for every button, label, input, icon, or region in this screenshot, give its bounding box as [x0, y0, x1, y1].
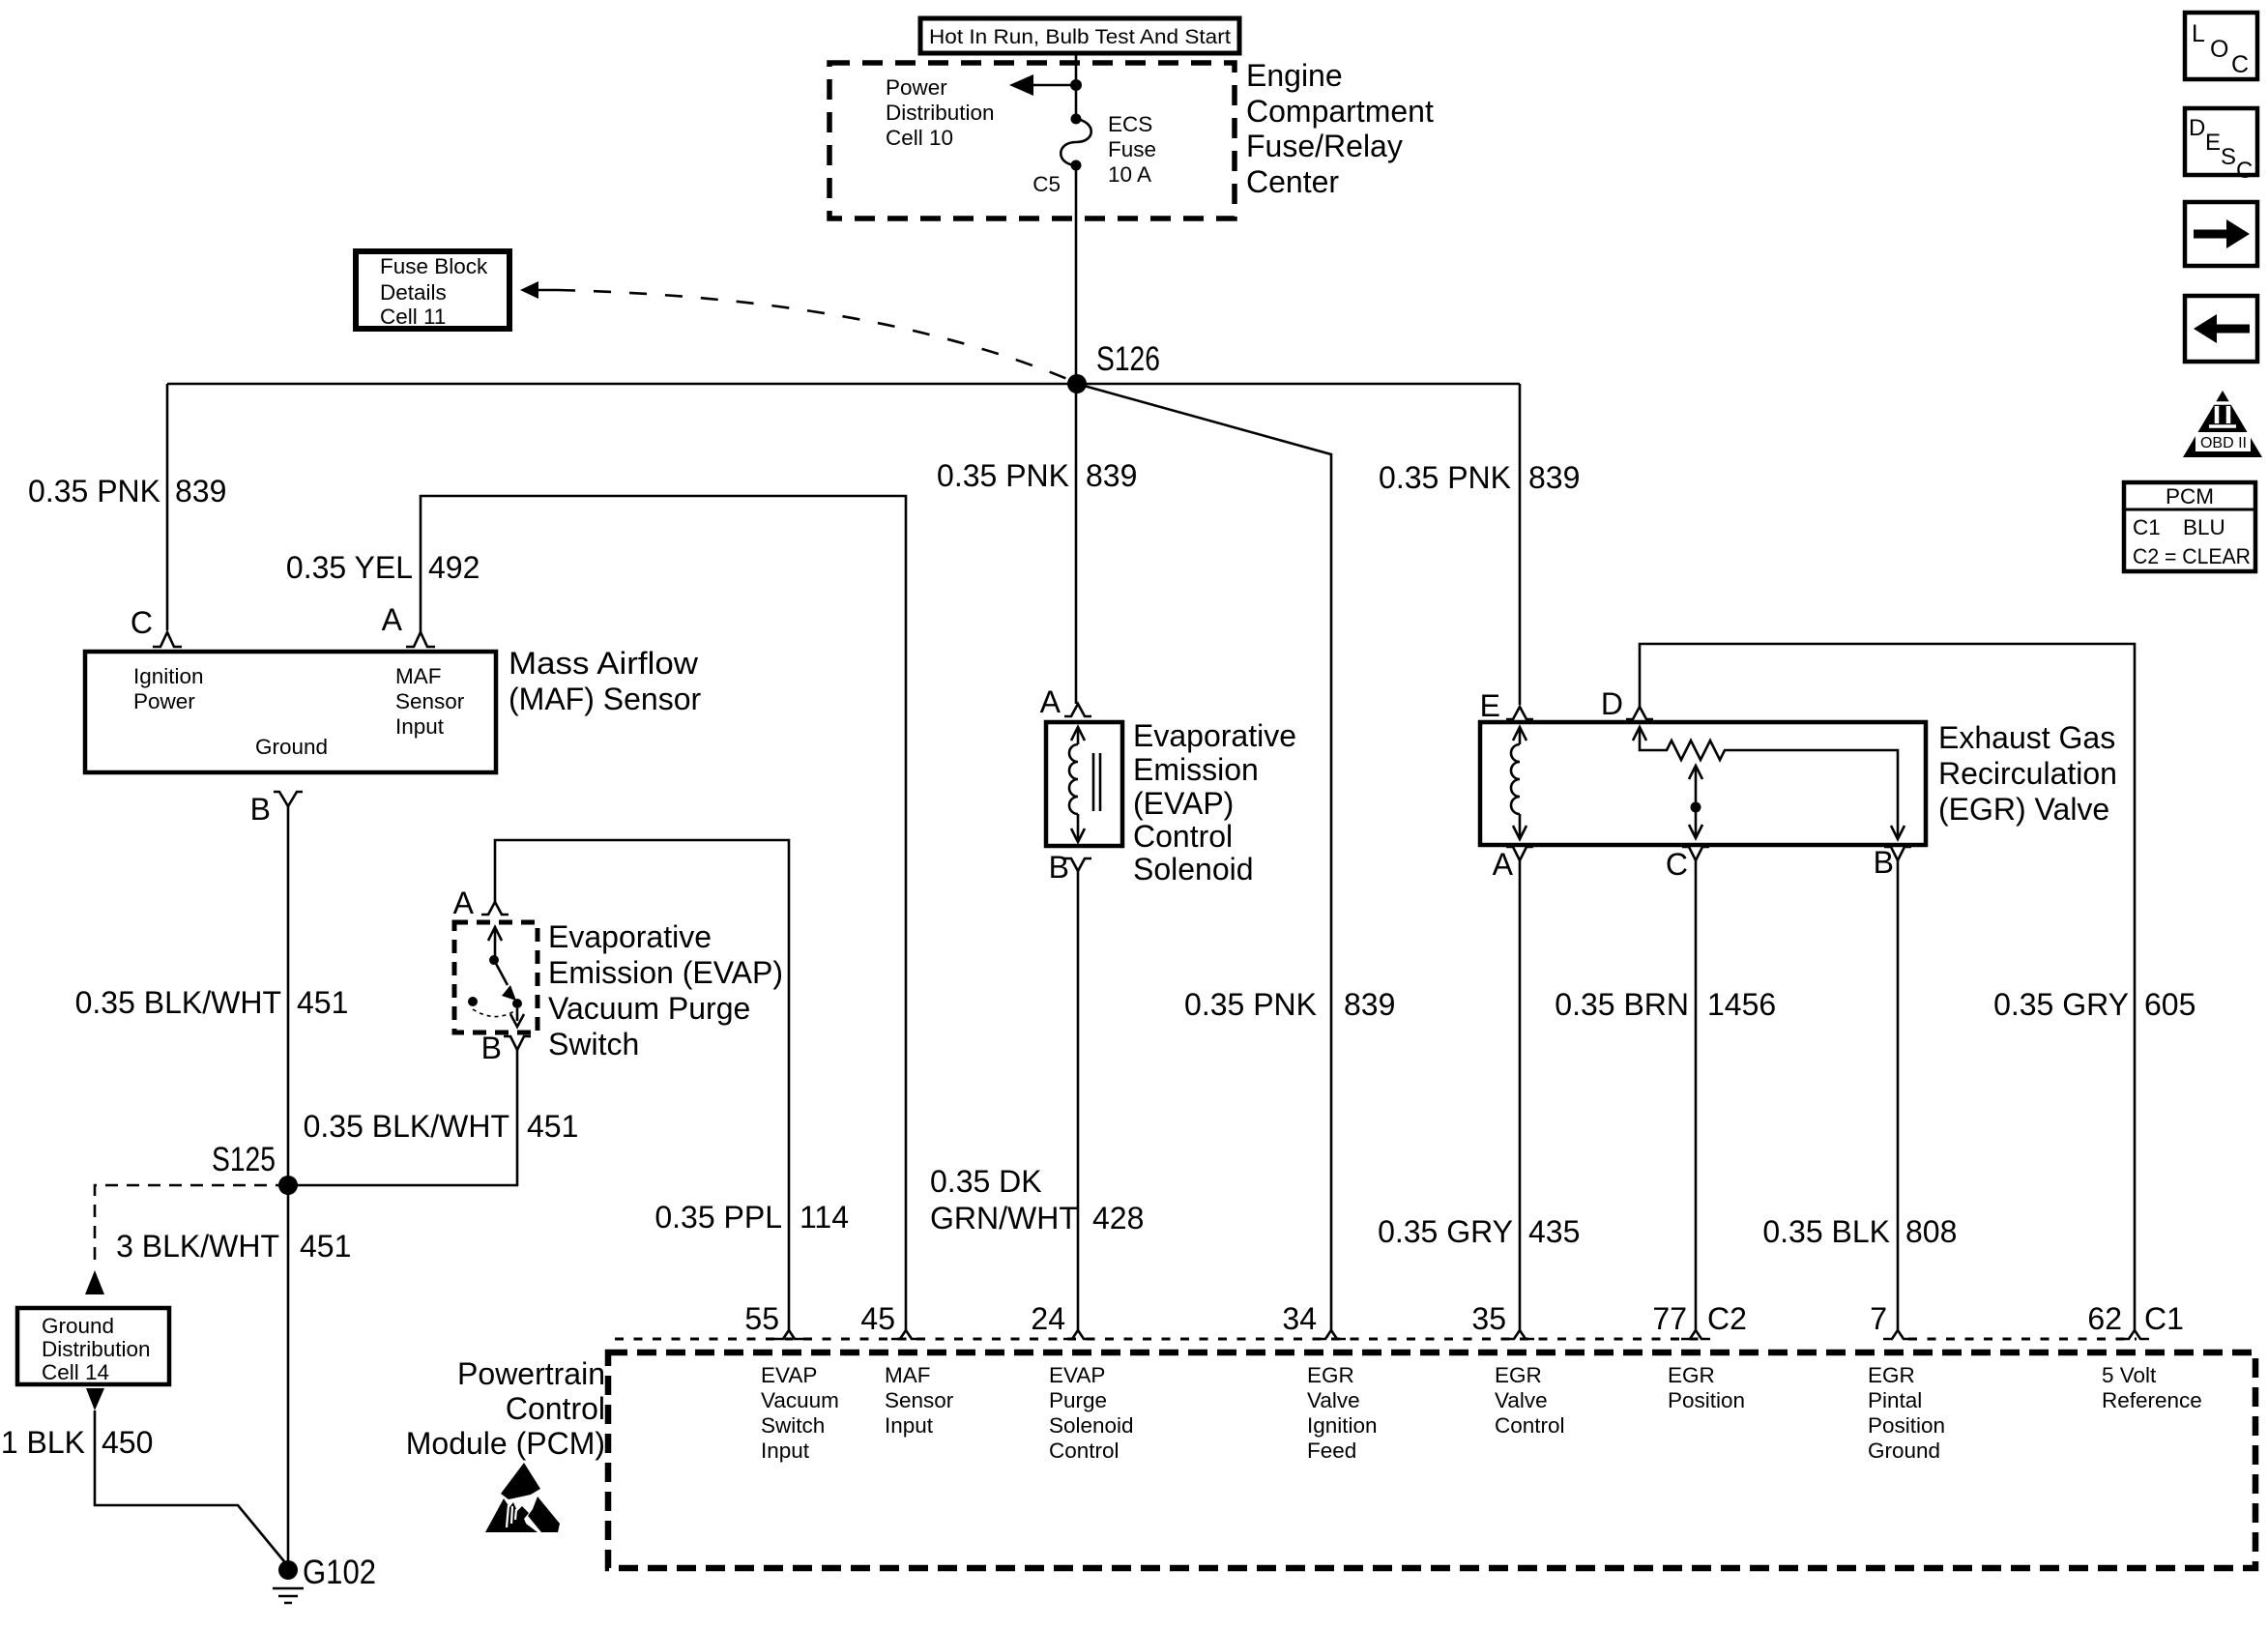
terminal D of EGR valve — [1626, 707, 1653, 719]
svg-text:0.35 PNK: 0.35 PNK — [1379, 460, 1511, 495]
svg-text:24: 24 — [1031, 1301, 1065, 1336]
svg-text:C: C — [131, 605, 153, 640]
terminal B of EGR valve — [1884, 847, 1911, 860]
svg-text:Switch: Switch — [548, 1027, 639, 1061]
power source banner: Hot In Run, Bulb Test And Start — [920, 18, 1239, 53]
wire: feed from banner into fuse — [1075, 55, 1078, 118]
switch contact arrow down — [516, 1008, 519, 1021]
svg-text:C1: C1 — [2144, 1301, 2184, 1336]
terminal A of EVAP solenoid — [1064, 704, 1091, 716]
node: junction dot to power distribution — [1070, 79, 1082, 91]
pin 77 terminal — [1681, 1330, 1710, 1339]
terminal A of MAF sensor — [406, 632, 435, 647]
svg-text:0.35 BRN: 0.35 BRN — [1555, 987, 1689, 1022]
svg-text:Emission: Emission — [1133, 752, 1259, 787]
svg-text:A: A — [1493, 847, 1514, 882]
svg-text:Feed: Feed — [1307, 1439, 1356, 1463]
svg-text:0.35 PNK: 0.35 PNK — [937, 458, 1069, 493]
svg-text:Powertrain: Powertrain — [457, 1356, 605, 1391]
label Mass Airflow (MAF) Sensor — [509, 646, 701, 716]
wire BLK 808: EGR B to PCM pin 7 — [1897, 860, 1900, 1330]
svg-text:0.35 YEL: 0.35 YEL — [286, 550, 413, 585]
EVAP vacuum purge switch dashed box — [454, 922, 538, 1032]
svg-text:(EVAP): (EVAP) — [1133, 786, 1234, 821]
wire 1 BLK 450 to G102 — [95, 1410, 288, 1566]
svg-text:Purge: Purge — [1049, 1388, 1107, 1412]
arrow out of Ground Distribution box — [86, 1388, 104, 1410]
pin 77 label EGR Position — [1668, 1363, 1745, 1412]
pin 55 label EVAP Vacuum Switch Input — [761, 1363, 839, 1463]
PCM connector color legend box — [2124, 482, 2255, 571]
EGR position wiper — [1689, 766, 1702, 838]
node: switch contact dot right — [512, 999, 522, 1008]
svg-text:B: B — [250, 792, 271, 827]
terminal B of EVAP switch — [504, 1036, 531, 1050]
svg-text:G102: G102 — [303, 1554, 376, 1591]
terminal B of MAF sensor — [274, 792, 303, 806]
svg-text:Power: Power — [133, 689, 195, 713]
EVAP control solenoid box — [1046, 722, 1122, 846]
pin 34 label EGR Valve Ignition Feed — [1307, 1363, 1378, 1463]
fuse ECS 10 A — [1061, 114, 1091, 171]
svg-text:3 BLK/WHT: 3 BLK/WHT — [116, 1229, 279, 1264]
pin 35 label EGR Valve Control — [1495, 1363, 1565, 1438]
svg-text:Center: Center — [1246, 164, 1339, 199]
ground G102 — [273, 1554, 376, 1603]
pin 35 terminal — [1505, 1330, 1534, 1339]
wire to power distribution arrow — [1031, 84, 1076, 87]
wire: left PNK 839 drop to MAF C — [166, 384, 169, 630]
dashed pointer from S126 to Fuse Block Details — [520, 281, 538, 299]
svg-text:451: 451 — [300, 1229, 351, 1264]
svg-text:Fuse/Relay: Fuse/Relay — [1246, 129, 1403, 163]
svg-text:Position: Position — [1868, 1413, 1945, 1438]
svg-text:Evaporative: Evaporative — [548, 919, 712, 954]
label Engine Compartment Fuse/Relay Center — [1246, 58, 1434, 199]
svg-text:808: 808 — [1905, 1214, 1957, 1249]
svg-text:ECS: ECS — [1108, 112, 1152, 136]
pin 62 terminal — [2120, 1330, 2149, 1339]
PCM connector C1 dashed line — [1908, 1338, 2137, 1341]
wire DK GRN/WHT 428: solenoid B to PCM pin 24 — [1077, 871, 1080, 1330]
svg-text:A: A — [1040, 684, 1061, 719]
splice S125 — [278, 1176, 298, 1195]
pin numbers — [744, 1301, 2122, 1336]
Fuse Block Details callout box — [356, 251, 509, 329]
svg-text:0.35 GRY: 0.35 GRY — [1993, 987, 2129, 1022]
LOC icon box — [2185, 13, 2257, 79]
svg-text:Control: Control — [506, 1391, 605, 1426]
svg-text:Engine: Engine — [1246, 58, 1343, 93]
svg-text:S: S — [2221, 144, 2236, 170]
wire: S126 horizontal rail — [167, 383, 1520, 386]
svg-text:Evaporative: Evaporative — [1133, 718, 1296, 753]
MAF internal labels — [133, 664, 465, 759]
svg-text:Valve: Valve — [1495, 1388, 1548, 1412]
svg-text:5 Volt: 5 Volt — [2102, 1363, 2157, 1387]
terminal E of EGR valve — [1506, 707, 1533, 719]
svg-text:C: C — [2231, 51, 2249, 78]
svg-text:Ground: Ground — [42, 1314, 114, 1338]
svg-text:Pintal: Pintal — [1868, 1388, 1922, 1412]
svg-text:B: B — [481, 1031, 502, 1065]
svg-text:0.35 PNK: 0.35 PNK — [1184, 987, 1317, 1022]
pin 7 terminal — [1883, 1330, 1912, 1339]
svg-text:Compartment: Compartment — [1246, 94, 1434, 129]
svg-text:Control: Control — [1133, 819, 1233, 854]
svg-text:EVAP: EVAP — [1049, 1363, 1105, 1387]
svg-text:1456: 1456 — [1707, 987, 1776, 1022]
svg-text:114: 114 — [800, 1200, 849, 1235]
svg-text:Fuse Block: Fuse Block — [380, 254, 488, 278]
svg-text:10 A: 10 A — [1108, 162, 1151, 187]
svg-text:34: 34 — [1282, 1301, 1317, 1336]
terminal C of MAF sensor — [153, 632, 182, 647]
dashed travel arc of switch — [473, 1009, 514, 1017]
svg-text:Distribution: Distribution — [886, 101, 995, 125]
pin 7 label EGR Pintal Position Ground — [1868, 1363, 1945, 1463]
svg-text:435: 435 — [1528, 1214, 1580, 1249]
Powertrain Control Module (PCM) dashed box — [608, 1352, 2255, 1568]
svg-text:L: L — [2192, 20, 2205, 47]
svg-text:S125: S125 — [212, 1141, 276, 1178]
wire: right PNK 839 drop to EGR E — [1519, 384, 1522, 705]
svg-text:B: B — [1049, 850, 1069, 885]
svg-text:D: D — [1601, 686, 1623, 721]
svg-text:0.35 PNK: 0.35 PNK — [28, 474, 160, 509]
switch lever with arrowhead — [494, 960, 508, 985]
svg-text:55: 55 — [744, 1301, 779, 1336]
svg-text:Exhaust Gas: Exhaust Gas — [1938, 720, 2115, 755]
PCM connector C2 dashed line — [615, 1338, 1708, 1341]
pin 34 terminal — [1317, 1330, 1346, 1339]
svg-text:C2: C2 — [1707, 1301, 1747, 1336]
svg-text:Recirculation: Recirculation — [1938, 756, 2117, 791]
solenoid coil with arrows — [1069, 727, 1085, 842]
svg-text:77: 77 — [1652, 1301, 1687, 1336]
svg-text:EVAP: EVAP — [761, 1363, 817, 1387]
svg-text:0.35 BLK: 0.35 BLK — [1762, 1214, 1890, 1249]
svg-text:Control: Control — [1049, 1439, 1119, 1463]
terminal C of EGR valve — [1682, 847, 1709, 860]
label Exhaust Gas Recirculation (EGR) Valve — [1938, 720, 2117, 827]
svg-text:0.35 DK: 0.35 DK — [930, 1164, 1042, 1199]
pin 62 label 5 Volt Reference — [2102, 1363, 2202, 1412]
left arrow icon box — [2185, 296, 2257, 362]
svg-text:Module (PCM): Module (PCM) — [406, 1426, 605, 1461]
svg-text:451: 451 — [297, 985, 348, 1020]
svg-text:C1: C1 — [2133, 515, 2161, 539]
EGR coil with arrows — [1511, 727, 1527, 839]
wire PNK 839: fuse C5 down through S126 to EVAP solenoid A — [1075, 165, 1078, 704]
svg-text:Input: Input — [761, 1439, 810, 1463]
svg-text:GRN/WHT: GRN/WHT — [930, 1201, 1078, 1236]
label Evaporative Emission (EVAP) Control Solenoid — [1133, 718, 1296, 887]
terminal A of EGR valve — [1506, 847, 1533, 860]
svg-text:Details: Details — [380, 280, 447, 305]
Ground Distribution Cell 14 box — [17, 1308, 169, 1384]
wire BRN 1456: EGR C to PCM pin 77 — [1695, 860, 1698, 1330]
pin 24 terminal — [1063, 1330, 1092, 1339]
node: switch pivot dot — [489, 955, 499, 965]
svg-text:Sensor: Sensor — [885, 1388, 954, 1412]
svg-text:EGR: EGR — [1668, 1363, 1715, 1387]
EGR position sensor resistor — [1633, 727, 1905, 839]
wire BLK/WHT 451: MAF B down to G102 — [287, 806, 290, 1570]
svg-text:C: C — [2236, 158, 2253, 184]
svg-text:C5: C5 — [1032, 172, 1061, 196]
svg-text:Emission (EVAP): Emission (EVAP) — [548, 955, 783, 990]
svg-text:Input: Input — [885, 1413, 934, 1438]
right arrow icon box — [2185, 202, 2257, 266]
Mass Airflow (MAF) Sensor box — [85, 652, 496, 772]
svg-text:839: 839 — [1086, 458, 1137, 493]
svg-text:0.35 PPL: 0.35 PPL — [654, 1200, 782, 1235]
node: switch contact dot left — [468, 997, 478, 1006]
svg-text:(EGR) Valve: (EGR) Valve — [1938, 792, 2109, 827]
solenoid core bars — [1093, 753, 1100, 811]
svg-text:428: 428 — [1092, 1201, 1144, 1236]
svg-text:839: 839 — [175, 474, 226, 509]
svg-text:Cell 10: Cell 10 — [886, 126, 953, 150]
svg-text:Switch: Switch — [761, 1413, 825, 1438]
svg-text:0.35 GRY: 0.35 GRY — [1378, 1214, 1513, 1249]
label Powertrain Control Module (PCM) — [406, 1356, 605, 1461]
pin 45 terminal — [891, 1330, 920, 1339]
svg-text:Solenoid: Solenoid — [1049, 1413, 1134, 1438]
svg-text:Position: Position — [1668, 1388, 1745, 1412]
svg-text:Ignition: Ignition — [133, 664, 204, 688]
svg-text:EGR: EGR — [1495, 1363, 1542, 1387]
svg-text:Solenoid: Solenoid — [1133, 852, 1254, 887]
svg-text:A: A — [382, 602, 403, 637]
svg-text:EGR: EGR — [1307, 1363, 1354, 1387]
svg-text:Distribution: Distribution — [42, 1337, 151, 1361]
dashed wire from S125 to Ground Distribution — [95, 1185, 288, 1268]
svg-text:Ground: Ground — [255, 735, 328, 759]
svg-text:BLU: BLU — [2183, 515, 2225, 539]
DESC icon box — [2185, 108, 2257, 184]
svg-text:Power: Power — [886, 75, 947, 100]
wire GRY 435: EGR A to PCM pin 35 — [1519, 860, 1522, 1330]
label ECS Fuse 10 A — [1108, 112, 1156, 187]
arrow head toward S125 — [85, 1270, 104, 1294]
svg-text:Fuse: Fuse — [1108, 137, 1156, 161]
splice S126 — [1067, 374, 1087, 393]
wire: diagonal from S126 to PCM pin 34 — [1077, 384, 1331, 1330]
svg-text:62: 62 — [2087, 1301, 2122, 1336]
svg-text:S126: S126 — [1096, 340, 1160, 378]
svg-text:C2 = CLEAR: C2 = CLEAR — [2133, 544, 2251, 568]
svg-text:O: O — [2210, 36, 2228, 63]
svg-text:E: E — [1480, 688, 1500, 723]
OBD II triangle icon — [2183, 391, 2262, 457]
svg-text:605: 605 — [2144, 987, 2195, 1022]
svg-text:MAF: MAF — [395, 664, 442, 688]
terminal A of EVAP switch — [481, 902, 509, 915]
svg-text:Vacuum: Vacuum — [761, 1388, 839, 1412]
svg-text:(MAF) Sensor: (MAF) Sensor — [509, 682, 701, 716]
wire YEL 492: MAF A to PCM pin 45 — [421, 496, 906, 1330]
Exhaust Gas Recirculation (EGR) valve box — [1480, 722, 1926, 845]
wire BLK/WHT 451: EVAP switch B down and left to S125 — [288, 1050, 517, 1185]
svg-text:Vacuum Purge: Vacuum Purge — [548, 991, 750, 1026]
svg-text:Hot In Run, Bulb Test And Star: Hot In Run, Bulb Test And Start — [929, 25, 1231, 48]
svg-text:451: 451 — [527, 1109, 578, 1144]
wire PPL 114: EVAP switch A up over to PCM pin 55 — [495, 840, 789, 1330]
wire GRY 605: EGR D loop to PCM pin 62 — [1640, 644, 2135, 1330]
svg-text:0.35 BLK/WHT: 0.35 BLK/WHT — [75, 985, 281, 1020]
svg-text:E: E — [2205, 130, 2221, 156]
svg-text:Input: Input — [395, 714, 445, 739]
svg-text:EGR: EGR — [1868, 1363, 1915, 1387]
svg-text:7: 7 — [1870, 1301, 1887, 1336]
svg-text:Control: Control — [1495, 1413, 1565, 1438]
svg-text:1 BLK: 1 BLK — [1, 1425, 85, 1460]
pin 24 label EVAP Purge Solenoid Control — [1049, 1363, 1134, 1463]
svg-text:0.35 BLK/WHT: 0.35 BLK/WHT — [304, 1109, 509, 1144]
svg-text:839: 839 — [1528, 460, 1580, 495]
svg-text:Mass Airflow: Mass Airflow — [509, 646, 699, 681]
svg-text:OBD II: OBD II — [2200, 435, 2247, 451]
svg-text:Ignition: Ignition — [1307, 1413, 1378, 1438]
label Power Distribution Cell 10 — [886, 75, 995, 150]
svg-text:Cell 14: Cell 14 — [42, 1360, 109, 1384]
svg-text:492: 492 — [428, 550, 480, 585]
svg-text:Reference: Reference — [2102, 1388, 2202, 1412]
svg-text:MAF: MAF — [885, 1363, 931, 1387]
svg-text:45: 45 — [860, 1301, 895, 1336]
svg-text:839: 839 — [1344, 987, 1395, 1022]
svg-text:A: A — [453, 886, 475, 920]
svg-text:35: 35 — [1471, 1301, 1506, 1336]
svg-text:PCM: PCM — [2166, 484, 2214, 509]
svg-text:Valve: Valve — [1307, 1388, 1360, 1412]
svg-text:Ground: Ground — [1868, 1439, 1940, 1463]
svg-text:Cell 11: Cell 11 — [380, 305, 446, 329]
svg-text:450: 450 — [102, 1425, 153, 1460]
svg-text:B: B — [1874, 845, 1894, 880]
ESD sensitivity symbol — [485, 1463, 560, 1532]
pin 55 terminal — [774, 1330, 803, 1339]
terminal B of EVAP solenoid — [1064, 858, 1091, 871]
Engine Compartment Fuse/Relay Center dashed box — [829, 63, 1235, 218]
svg-text:C: C — [1666, 847, 1688, 882]
svg-text:D: D — [2189, 115, 2205, 141]
svg-text:Sensor: Sensor — [395, 689, 465, 713]
switch contact arrow up — [488, 927, 502, 941]
pin 45 label MAF Sensor Input — [885, 1363, 954, 1438]
arrow to Power Distribution Cell 10 — [1009, 74, 1033, 96]
label Evaporative Emission (EVAP) Vacuum Purge Switch — [548, 919, 783, 1061]
